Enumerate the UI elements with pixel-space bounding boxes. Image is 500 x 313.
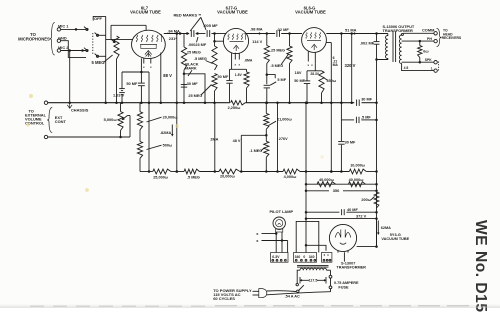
svg-text:.98 MA: .98 MA (250, 26, 263, 31)
resistor 25000 ohm rail (153, 169, 171, 174)
wire GND jog (61, 41, 86, 58)
svg-text:RECEIVERS: RECEIVERS (442, 36, 462, 40)
svg-text:.5 MEG: .5 MEG (187, 175, 200, 179)
wire 6L6 screen (326, 42, 331, 44)
svg-text:30 MF: 30 MF (361, 98, 372, 102)
resistor .5 MEG grid 6L6 (287, 46, 292, 64)
svg-text:MARK: MARK (185, 66, 197, 70)
wiper 5000 (122, 116, 127, 120)
svg-text:5 MF: 5 MF (277, 78, 286, 82)
svg-text:500ω: 500ω (163, 143, 173, 147)
svg-text:5,000ω: 5,000ω (104, 117, 118, 122)
wiper arrow 5 MEG (111, 39, 115, 42)
transformer primary (387, 34, 389, 37)
resistor 1.8V cathode (246, 69, 248, 72)
scan stain 3 (320, 155, 323, 158)
pilot lamp (273, 217, 285, 229)
wire shield to chassis (69, 51, 71, 103)
node junction (183, 70, 185, 103)
svg-text:VACUUM TUBE: VACUUM TUBE (381, 237, 409, 241)
transformer core (392, 32, 394, 63)
svg-text:.005 MF: .005 MF (203, 23, 218, 28)
resistor 4000 ohm rail (283, 169, 300, 174)
svg-text:60 CYCLES: 60 CYCLES (213, 296, 235, 301)
wire right side to bus and rail (148, 72, 150, 172)
svg-text:20,000ω: 20,000ω (220, 175, 236, 179)
svg-text:62MA: 62MA (381, 226, 391, 230)
wire tap L (402, 64, 434, 71)
svg-text:5 MEG: 5 MEG (92, 60, 105, 65)
svg-text:.1 MEG: .1 MEG (249, 149, 262, 153)
tube 6L7 heater pins (143, 58, 145, 64)
svg-text:.02 MF: .02 MF (277, 27, 290, 32)
resistor 20000 ohm rail (219, 169, 240, 174)
terminal ext volume top (44, 101, 47, 104)
svg-text:50 MF: 50 MF (218, 75, 229, 79)
svg-text:PILOT LAMP: PILOT LAMP (270, 209, 294, 214)
capacitor .5 MF (355, 117, 357, 123)
terminal COMM (434, 32, 437, 35)
svg-text:CHASSIS: CHASSIS (71, 107, 89, 112)
svg-text:.5 MF: .5 MF (361, 116, 371, 120)
tube 6J7 envelope (223, 28, 248, 53)
tube 6L7 heater arrow (145, 51, 152, 58)
tube 6L7 cathode (140, 44, 157, 46)
wire 6L7 cathode down (140, 58, 142, 72)
capacitor .002 MF (376, 34, 378, 42)
wire loop right (184, 74, 205, 103)
svg-text:372 V: 372 V (356, 214, 367, 219)
potentiometer 5000 ohm (118, 112, 123, 131)
svg-text:40,000ω: 40,000ω (319, 178, 335, 182)
capacitor 5 MF (264, 84, 270, 86)
drawing number WE No. D15 (472, 220, 489, 313)
svg-text:50 MF: 50 MF (294, 79, 305, 83)
HV bridge (296, 221, 319, 252)
wire MIC2 to switch (61, 50, 86, 52)
svg-text:1.8V: 1.8V (235, 73, 243, 77)
resistor 20000 ohm vertical (137, 112, 142, 130)
capacitor 30 MF lower (340, 120, 342, 141)
svg-text:GND: GND (58, 35, 67, 40)
wire B+ 231 down to rail (176, 34, 178, 172)
line 40000 pair (306, 183, 377, 185)
chassis ground symbol (68, 101, 71, 104)
scan edge bottom (30, 305, 205, 307)
cathode node (230, 68, 247, 70)
tube 6L7 envelope (132, 30, 166, 58)
capacitor 30 MF (181, 84, 187, 86)
svg-text:21,000ω: 21,000ω (277, 117, 293, 121)
wire 6L6 plate out (326, 33, 388, 35)
dimension 117.5 (299, 277, 301, 284)
wire tap COMM (403, 32, 434, 34)
wire grid 6J7 (215, 40, 224, 42)
svg-text:4 8: 4 8 (404, 66, 409, 70)
svg-text:40,000ω: 40,000ω (349, 178, 365, 182)
svg-text:340: 340 (295, 255, 301, 259)
wire 6J7 plate out (246, 33, 275, 35)
line 372 V (306, 218, 377, 220)
svg-text:320 V: 320 V (345, 63, 356, 68)
wire 320V (351, 34, 353, 103)
svg-text:231*: 231* (169, 36, 177, 41)
tube 6J7 grids (228, 34, 229, 40)
svg-text:2,250ω: 2,250ω (228, 106, 242, 110)
wire MIC1 to switch (61, 28, 86, 30)
svg-text:10,000ω: 10,000ω (350, 163, 366, 167)
svg-text:0: 0 (303, 255, 305, 259)
svg-text:30 MF: 30 MF (345, 141, 356, 145)
terminal PH (434, 39, 437, 42)
capacitor 30 MF bus (356, 100, 358, 106)
svg-text:MA: MA (333, 63, 339, 67)
svg-text:356: 356 (333, 188, 340, 193)
bus chassis ground (48, 102, 230, 104)
terminal L (434, 69, 437, 72)
terminal SPK (434, 61, 437, 64)
resistor 2250 ohm bus (231, 101, 246, 105)
fuse (330, 270, 332, 275)
resistor .5 MEG grid 6J7 (212, 46, 217, 70)
wire 5Y3 output (357, 246, 377, 248)
svg-text:276V: 276V (279, 137, 288, 141)
svg-text:114 V: 114 V (252, 39, 262, 44)
scan bottom edge (0, 304, 500, 308)
socket block 6.3V (271, 253, 288, 263)
capacitor 50 MF cathode 6L7 (140, 72, 142, 83)
svg-text:117.5: 117.5 (309, 279, 318, 283)
transformer S-13007 core (297, 264, 329, 266)
svg-text:COMM: COMM (422, 28, 434, 33)
switch power (296, 283, 298, 285)
svg-text:.54 A AC: .54 A AC (285, 295, 300, 299)
svg-text:.25 MEG: .25 MEG (186, 51, 201, 55)
label 62MA (377, 221, 379, 235)
tube 5Y3 pins (337, 251, 339, 253)
wire 6L7 plate (164, 33, 189, 35)
brace ext control (47, 108, 52, 133)
wire 276V (277, 103, 279, 172)
heater wire x1 (262, 233, 277, 235)
wire grid-leak 6J7 top (183, 34, 185, 48)
svg-text:VACUUM TUBE: VACUUM TUBE (295, 9, 326, 14)
plug (253, 290, 259, 292)
resistor 6 ohm (419, 41, 421, 45)
svg-text:RED MARKS: RED MARKS (174, 13, 198, 18)
svg-text:40 MF: 40 MF (347, 208, 358, 212)
wire tap PH (402, 40, 434, 42)
svg-text:VACUUM TUBE: VACUUM TUBE (217, 9, 248, 14)
wire feedback tap (340, 34, 342, 103)
center tap to socket (305, 244, 308, 247)
capacitor 50 MF 6J7 (229, 69, 231, 80)
wire switch common down (105, 16, 107, 102)
wire 48V node (240, 135, 242, 171)
capacitor red mark 1 (190, 30, 192, 37)
socket block 340-0-340 (294, 253, 317, 263)
wire grid1 from switch to 6L7 (106, 38, 133, 40)
pilot lamp base (276, 229, 283, 232)
wire ext cont (48, 136, 130, 138)
heater wire x2 (262, 240, 288, 242)
tube 6L7 grids (136, 35, 137, 42)
wire 6J7 plate in (224, 33, 227, 35)
tube 6J7 heater arrow (233, 45, 239, 51)
svg-text:1.23 V: 1.23 V (113, 92, 125, 97)
vertical A center-tap (305, 103, 307, 246)
svg-text:50 MF: 50 MF (126, 81, 138, 86)
scan stain 1 (29, 94, 33, 98)
wire 6L6 cathode (314, 64, 316, 71)
bias cell 1.23 V (121, 72, 123, 89)
svg-text:18V: 18V (295, 71, 302, 75)
svg-text:20,000ω: 20,000ω (163, 115, 179, 119)
svg-text:200ω: 200ω (361, 198, 371, 202)
tube 6J7 pins (234, 53, 236, 60)
svg-text:6.3V: 6.3V (272, 255, 280, 259)
svg-text:4,000ω: 4,000ω (284, 175, 298, 179)
wire .5MF line (340, 103, 342, 120)
wire plug to fuse (267, 292, 331, 295)
transformer secondary (399, 35, 401, 64)
wire tap SPK (402, 61, 434, 63)
tube 6J7 cathode (230, 41, 244, 43)
svg-text:.00023 MF: .00023 MF (188, 43, 207, 47)
terminal ext volume bottom (44, 135, 47, 138)
svg-text:SPK: SPK (425, 58, 432, 62)
svg-text:L: L (431, 67, 433, 71)
svg-text:.84 MA: .84 MA (167, 29, 180, 34)
tube 6L6 envelope (302, 28, 327, 53)
wire 6J7 cathode down (231, 52, 233, 69)
potentiometer 5 MEG (114, 36, 119, 59)
resistor .25 MEG plate load 6J7 (264, 46, 269, 64)
svg-text:.6MA: .6MA (244, 59, 253, 63)
resistor 21000 ohm (265, 103, 267, 114)
svg-text:340: 340 (309, 255, 315, 259)
svg-text:.25 MEG: .25 MEG (270, 49, 285, 53)
brace head receivers (437, 29, 442, 47)
svg-text:48 V: 48 V (233, 139, 241, 143)
resistor .1 MEG (264, 141, 269, 157)
wire 6L7 screen down (160, 53, 162, 103)
svg-text:88 V: 88 V (163, 73, 172, 78)
svg-text:VACUUM TUBE: VACUUM TUBE (130, 9, 161, 14)
resistor 500 ohm vertical (139, 130, 141, 142)
scan stain 2 (175, 124, 179, 128)
wire .002 node down (376, 60, 378, 247)
svg-text:25 MEG: 25 MEG (188, 94, 202, 98)
resistor 200 ohm (374, 192, 379, 208)
resistor 25 MEG lower (212, 74, 217, 92)
svg-text:.82MA: .82MA (160, 131, 171, 135)
dashed link speaker (438, 62, 440, 72)
tube 5Y3 envelope (329, 224, 356, 251)
line 356 (306, 190, 329, 192)
line 40 MF (306, 211, 339, 213)
transformer S-13007 primary (300, 268, 327, 270)
svg-text:TRANSFORMER: TRANSFORMER (336, 265, 366, 269)
svg-text:MICROPHONES: MICROPHONES (18, 36, 50, 41)
svg-text:PH: PH (427, 37, 432, 41)
wire wiper to 6L7 grid cap (111, 24, 146, 26)
tube 5Y3 filaments (335, 233, 341, 238)
wire plug to switch (267, 290, 296, 293)
svg-text:6ω: 6ω (423, 49, 429, 54)
svg-text:30 MF: 30 MF (187, 82, 198, 86)
wire bus to rail at 215 (214, 103, 216, 172)
tube 6L6 heater arrow (311, 44, 317, 50)
svg-text:.002 MF: .002 MF (360, 41, 375, 46)
brace microphones (50, 23, 55, 56)
capacitor 50 MF 6L6 (306, 71, 308, 81)
resistor 350 ohm (319, 71, 324, 93)
resistor .25 MEG (181, 47, 186, 70)
socket block rectifier (322, 253, 332, 263)
svg-text:TRANSFORMER: TRANSFORMER (383, 28, 413, 33)
rail B+ (140, 171, 153, 173)
resistor .5 MEG rail (184, 169, 200, 174)
tube 6L6 pins (307, 52, 309, 62)
tube 6L6 grids (306, 33, 307, 39)
svg-text:51 MA: 51 MA (345, 28, 357, 33)
svg-text:25,000ω: 25,000ω (153, 175, 169, 179)
svg-text:FUSE: FUSE (338, 285, 349, 289)
svg-text:.5 MEG: .5 MEG (194, 57, 207, 61)
wire bias box top (122, 71, 149, 73)
tube 6L6 cathode (307, 39, 321, 41)
svg-text:CONT: CONT (55, 119, 67, 124)
pilot lamp leads (275, 232, 277, 253)
resistor 10000 ohm rail (349, 169, 366, 174)
